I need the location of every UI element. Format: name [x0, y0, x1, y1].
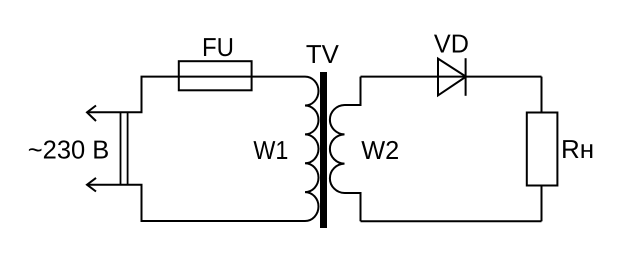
winding W2 (secondary, 3 arcs) — [330, 105, 345, 193]
wire top arrow line to fuse (primary top) — [87, 77, 305, 113]
plug terminal double line right — [127, 112, 129, 184]
winding W1 (primary, 5 arcs) — [305, 77, 319, 221]
resistor Rn body — [527, 113, 558, 186]
svg-text:FU: FU — [202, 32, 234, 62]
arrow head bottom (mains input) — [87, 178, 96, 192]
svg-text:W2: W2 — [361, 135, 399, 165]
wire resistor top lead — [541, 77, 543, 113]
wire secondary top rail — [361, 76, 542, 78]
plug terminal double line left — [120, 112, 122, 184]
svg-text:~230 В: ~230 В — [28, 135, 110, 165]
svg-text:W1: W1 — [253, 135, 288, 165]
diode VD triangle — [438, 59, 466, 96]
diode VD cathode bar — [465, 58, 467, 96]
wire W2 bottom lead — [345, 193, 361, 221]
fuse FU — [179, 61, 252, 90]
transformer core TV — [320, 72, 327, 228]
svg-text:VD: VD — [434, 28, 469, 58]
svg-text:TV: TV — [306, 39, 340, 69]
svg-text:Rн: Rн — [561, 134, 594, 164]
wire secondary bottom rail — [361, 220, 542, 222]
wire W2 top lead — [345, 77, 361, 105]
arrow head top (mains input) — [87, 106, 96, 122]
wire bottom rail primary — [87, 185, 305, 221]
wire resistor bottom lead — [541, 186, 543, 222]
